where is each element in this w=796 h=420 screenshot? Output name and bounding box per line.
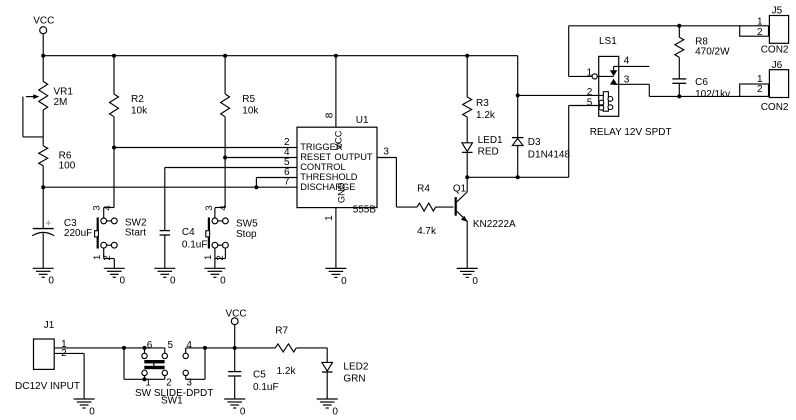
svg-text:7: 7 (284, 177, 290, 188)
svg-text:DISCHARGE: DISCHARGE (300, 182, 355, 192)
node junction rail-R5 (223, 54, 227, 58)
svg-text:0.1uF: 0.1uF (253, 382, 279, 393)
wire J1 pin 2 (54, 348, 84, 399)
transistor Q1 KN2222A (453, 177, 516, 268)
svg-text:4: 4 (186, 340, 192, 351)
wire SW1 left riser (124, 348, 145, 379)
LED LED2 (GRN) (322, 348, 369, 399)
svg-text:C6: C6 (695, 77, 708, 88)
wire discharge net (pin 7) (43, 177, 297, 188)
node junction R2-trigger (112, 146, 116, 150)
LED LED1 (RED) (462, 135, 503, 177)
svg-text:CONTROL: CONTROL (300, 162, 345, 172)
svg-text:3: 3 (624, 75, 630, 86)
wire relay common to top net (568, 26, 570, 77)
svg-text:1.2k: 1.2k (277, 366, 297, 377)
wire R5 to SW5 (224, 158, 226, 208)
relay pin 1 common contact (569, 67, 614, 79)
resistor R3 (463, 56, 496, 143)
svg-text:R3: R3 (476, 98, 489, 109)
wire collector node (467, 176, 569, 178)
svg-text:0: 0 (48, 276, 54, 287)
ground under SW2 (104, 268, 126, 286)
node junction collector-D3 (516, 175, 520, 179)
svg-text:1: 1 (203, 255, 214, 260)
svg-text:470/2W: 470/2W (695, 46, 730, 57)
svg-text:0: 0 (120, 276, 126, 287)
capacitor C5 (228, 370, 278, 399)
node junction rail-R2 (112, 54, 116, 58)
ground under Q1 (457, 268, 479, 286)
svg-text:Start: Start (125, 228, 146, 239)
svg-text:3: 3 (91, 205, 102, 210)
svg-text:Stop: Stop (236, 229, 257, 240)
ground under LED2 (317, 399, 339, 417)
svg-text:OUTPUT: OUTPUT (334, 152, 373, 162)
ground under J1 pin2 (74, 399, 96, 417)
diode D3 D1N4148 (512, 95, 571, 177)
svg-text:0: 0 (220, 276, 226, 287)
svg-text:5: 5 (587, 97, 593, 108)
switch SW1 slide DPDT (124, 340, 213, 407)
svg-text:1: 1 (324, 215, 335, 221)
svg-text:2: 2 (757, 84, 763, 95)
svg-text:1.2k: 1.2k (476, 110, 496, 121)
node junction SW1 pin6 (143, 346, 147, 350)
resistor R2 (110, 56, 149, 148)
ground under C5 (224, 399, 246, 417)
svg-text:THRESHOLD: THRESHOLD (300, 172, 358, 182)
U1 pin 8 wire (324, 56, 336, 128)
svg-text:RESET: RESET (300, 152, 331, 162)
wire SW1 to VCC node (205, 347, 275, 349)
ground under U1 (325, 268, 347, 286)
U1 THRESHOLD label (300, 172, 358, 182)
node junction rail-U1pin8 (334, 54, 338, 58)
svg-text:2: 2 (166, 377, 172, 388)
capacitor C4 (160, 168, 208, 269)
node junction C3-discharge (41, 185, 45, 189)
svg-text:J5: J5 (772, 5, 783, 16)
svg-text:Q1: Q1 (453, 183, 467, 194)
capacitor C6 (672, 77, 730, 100)
switch SW5 (Stop pushbutton) (203, 205, 258, 268)
wire VCC top rail (43, 55, 518, 57)
svg-text:1: 1 (587, 67, 593, 78)
U1 pin 1 wire (324, 208, 336, 269)
node junction VCC-C5 (233, 346, 237, 350)
svg-text:R4: R4 (417, 183, 430, 194)
svg-text:0: 0 (472, 276, 478, 287)
resistor R8 (675, 26, 730, 79)
svg-text:RED: RED (478, 146, 499, 157)
svg-text:VCC: VCC (33, 16, 54, 27)
relay LS1 coil (599, 92, 613, 112)
svg-text:D1N4148: D1N4148 (528, 150, 571, 161)
relay pin 2 label (587, 87, 593, 98)
svg-text:4: 4 (103, 205, 114, 210)
svg-text:4: 4 (218, 205, 229, 210)
svg-text:3: 3 (383, 146, 389, 157)
svg-text:C5: C5 (253, 370, 266, 381)
U1 CONTROL label (300, 162, 345, 172)
relay pin 5 label (587, 97, 593, 108)
svg-text:CON2: CON2 (761, 102, 789, 113)
node junction C6-net (677, 94, 681, 98)
svg-text:J1: J1 (44, 320, 55, 331)
ground under C4 (154, 268, 176, 286)
svg-text:0: 0 (332, 406, 338, 417)
svg-text:J6: J6 (772, 60, 783, 71)
svg-text:2: 2 (61, 348, 67, 359)
svg-text:R7: R7 (275, 326, 288, 337)
svg-text:102/1kv: 102/1kv (695, 89, 730, 100)
svg-text:CON2: CON2 (761, 45, 789, 56)
U1 GND rotated label (336, 182, 346, 203)
wire relay pin5 riser (569, 106, 604, 178)
svg-text:5: 5 (168, 340, 174, 351)
relay pin 4 contact (610, 56, 649, 77)
resistor R4 (417, 183, 453, 237)
svg-text:6: 6 (147, 340, 153, 351)
svg-text:4.7k: 4.7k (417, 226, 437, 237)
svg-text:4: 4 (624, 56, 630, 67)
wire trigger net (pin 2) (114, 137, 297, 148)
U1 TRIGGER label (300, 142, 343, 152)
potentiometer VR1 (23, 56, 73, 146)
svg-text:KN2222A: KN2222A (473, 219, 516, 230)
wire reset net (pin 4) (225, 147, 297, 158)
wire top-right net (569, 25, 740, 27)
svg-text:DC12V INPUT: DC12V INPUT (15, 381, 80, 392)
svg-text:2: 2 (757, 27, 763, 38)
node junction collector-LED1 (465, 175, 469, 179)
svg-text:3: 3 (204, 205, 215, 210)
svg-text:D3: D3 (528, 137, 541, 148)
wire output net (pin 3) (377, 146, 417, 207)
wire J1 pin 1 (54, 339, 124, 350)
U1 RESET label (300, 152, 331, 162)
svg-text:TRIGGER: TRIGGER (300, 142, 343, 152)
svg-text:2: 2 (215, 255, 226, 260)
switch SW2 (Start pushbutton) (91, 205, 147, 268)
svg-text:GRN: GRN (343, 374, 365, 385)
svg-text:LED1: LED1 (478, 135, 503, 146)
op-amp U1 555 timer box (297, 115, 377, 215)
svg-text:0: 0 (341, 276, 347, 287)
wire relay pin2 net (518, 94, 604, 96)
svg-text:0: 0 (89, 406, 95, 417)
U1 OUTPUT label (334, 152, 373, 162)
node junction R5-reset (223, 156, 227, 160)
capacitor C3 (electrolytic) (32, 218, 92, 268)
node junction D3-coil (516, 93, 520, 97)
U1 VCC rotated label (333, 130, 343, 150)
resistor R6 (39, 146, 76, 229)
relay pin 3 contact (610, 75, 679, 97)
svg-text:RELAY 12V SPDT: RELAY 12V SPDT (590, 127, 672, 138)
svg-text:0: 0 (170, 276, 176, 287)
connector J1 (15, 320, 80, 392)
power VCC symbol (top left) (33, 16, 54, 56)
svg-text:LS1: LS1 (599, 36, 617, 47)
svg-text:VR1: VR1 (54, 86, 74, 97)
ground under C3 (33, 268, 55, 286)
svg-text:220uF: 220uF (64, 228, 92, 239)
relay LS1 box (599, 36, 619, 116)
svg-text:R5: R5 (242, 94, 255, 105)
node junction threshold-discharge (254, 185, 258, 189)
power VCC symbol (bottom) (226, 309, 247, 372)
node junction topnet-R8 (677, 24, 681, 28)
node junction SW1 right (203, 346, 207, 350)
svg-text:2: 2 (102, 255, 113, 260)
relay label (590, 127, 672, 138)
wire threshold net (pin 6) (256, 167, 297, 187)
svg-text:2M: 2M (54, 97, 68, 108)
svg-text:U1: U1 (356, 115, 369, 126)
svg-text:555B: 555B (353, 204, 377, 215)
svg-text:100: 100 (59, 160, 76, 171)
resistor R5 (221, 56, 260, 158)
resistor R7 (275, 326, 327, 378)
svg-text:8: 8 (324, 112, 335, 118)
wire J6 net (679, 95, 739, 97)
svg-text:10k: 10k (131, 105, 148, 116)
svg-text:SW1: SW1 (161, 396, 183, 407)
node junction rail-VR1 (41, 54, 45, 58)
svg-text:R2: R2 (131, 94, 144, 105)
connector J5 (740, 5, 789, 55)
connector J6 (740, 60, 789, 113)
wire VCC rail drop to D3 (517, 56, 519, 96)
svg-text:10k: 10k (242, 105, 259, 116)
wire R2 to SW2 (113, 148, 115, 208)
ground under SW5 (204, 268, 226, 286)
node junction rail-R3 (465, 54, 469, 58)
svg-text:0: 0 (240, 406, 246, 417)
svg-text:0.1uF: 0.1uF (182, 239, 208, 250)
wire control net (pin 5) (165, 157, 297, 168)
svg-text:C4: C4 (182, 227, 195, 238)
svg-text:LED2: LED2 (343, 361, 368, 372)
U1 DISCHARGE label (300, 182, 355, 192)
node junction SW1 pin1 (143, 377, 147, 381)
node junction SW1 left (122, 346, 126, 350)
